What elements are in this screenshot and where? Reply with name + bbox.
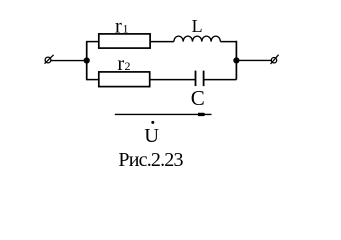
svg-text:r: r [115, 15, 122, 37]
node B (right junction) [233, 57, 239, 63]
wire capacitor to node B [204, 79, 237, 81]
resistor r2 [99, 72, 150, 87]
inductor L [174, 36, 221, 42]
svg-text:1: 1 [123, 21, 129, 35]
svg-text:L: L [192, 16, 203, 36]
wire node A to r1 [86, 41, 99, 43]
wire inductor to right riser [220, 41, 236, 43]
wire left terminal to node A [51, 60, 87, 62]
wire r1 to inductor [150, 41, 174, 43]
resistor r1 [99, 34, 150, 48]
wire node A to r2 [86, 79, 99, 81]
wire left vertical branch riser [86, 42, 88, 80]
wire r2 to capacitor [150, 79, 196, 81]
terminal right [271, 55, 279, 64]
svg-text:Рис.2.23: Рис.2.23 [118, 149, 183, 171]
wire node B to right terminal [236, 59, 271, 61]
svg-text:U: U [144, 125, 159, 147]
wire right vertical branch riser [235, 41, 237, 80]
terminal left [45, 55, 54, 64]
svg-text:C: C [191, 86, 205, 110]
svg-text:r: r [117, 53, 124, 75]
svg-text:2: 2 [125, 59, 131, 73]
label U dot (phasor dot) [151, 121, 154, 124]
voltage arrow head [198, 113, 205, 116]
voltage arrow line U [115, 113, 212, 115]
node A (left junction) [84, 57, 90, 63]
capacitor C [196, 71, 204, 87]
